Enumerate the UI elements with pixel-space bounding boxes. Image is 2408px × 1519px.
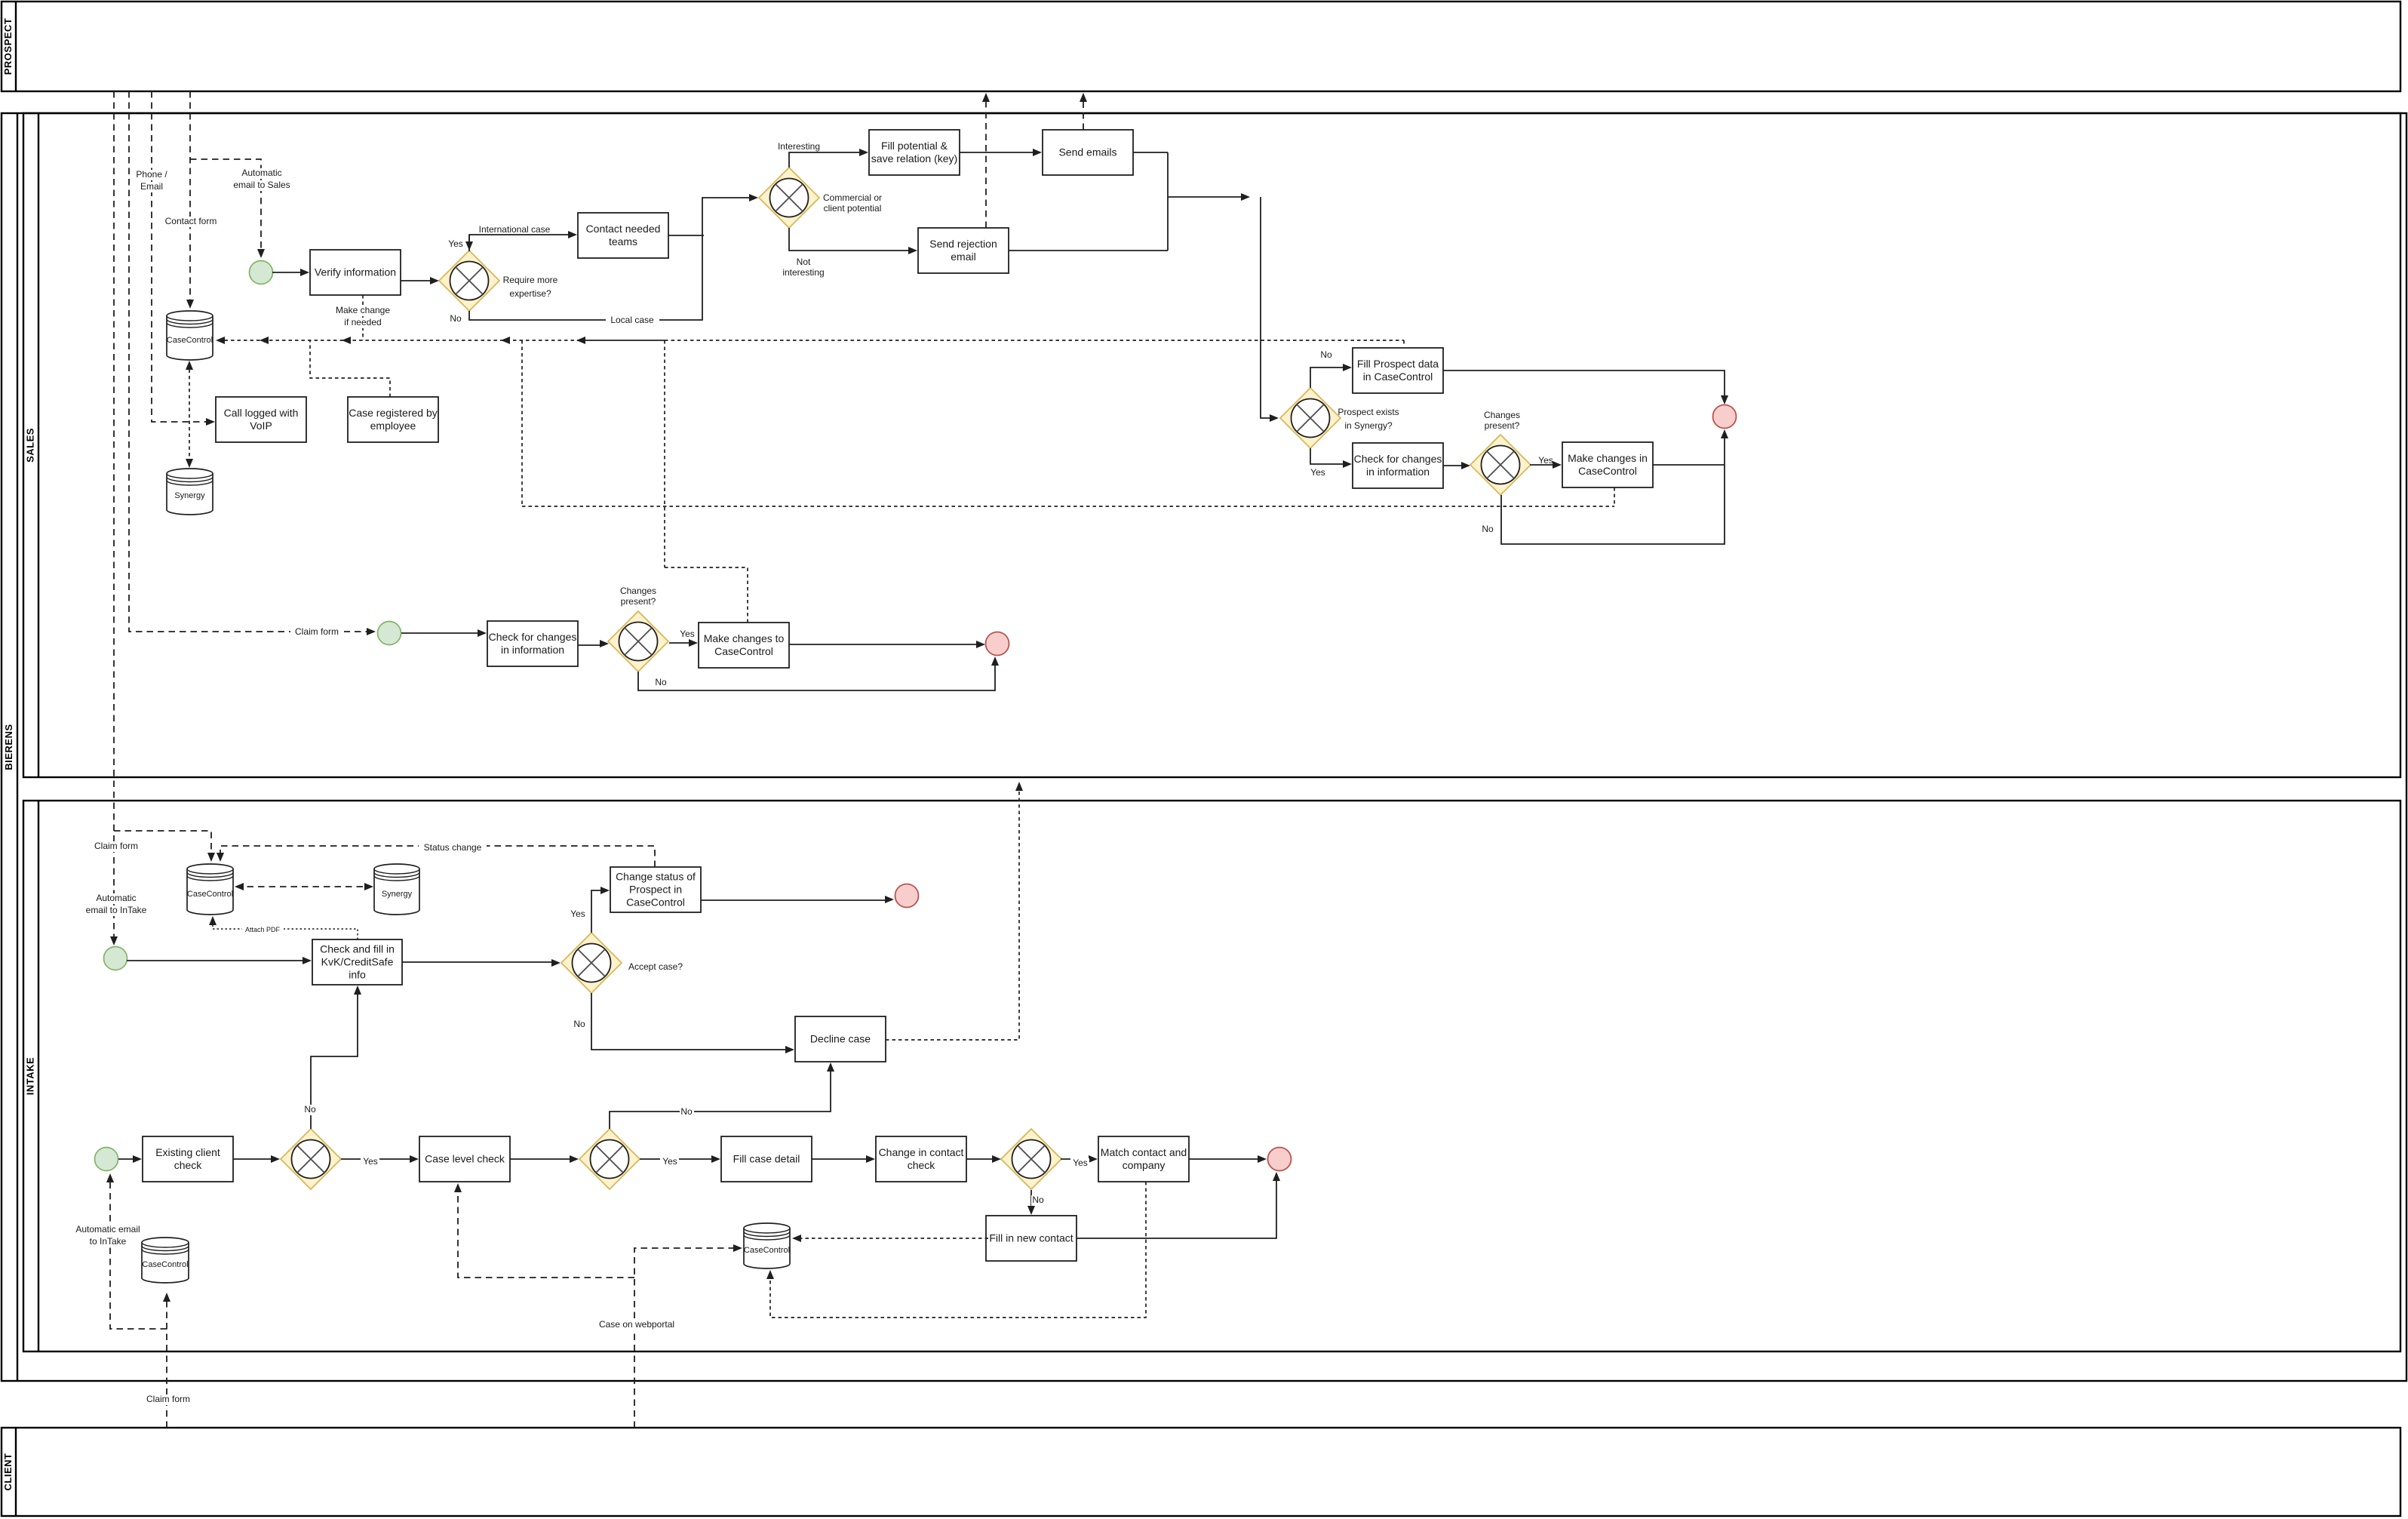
flow Fill case detail to Change in contact — [812, 1158, 871, 1160]
svg-text:if needed: if needed — [344, 317, 381, 327]
svg-text:expertise?: expertise? — [509, 288, 551, 299]
svg-text:Interesting: Interesting — [778, 141, 820, 152]
svg-text:Make changes in: Make changes in — [1568, 452, 1648, 464]
svg-text:save relation (key): save relation (key) — [871, 152, 957, 165]
message claim form client to start — [110, 1178, 167, 1329]
flow check to gateway (claim) — [578, 644, 604, 646]
datastore CaseControl (intake top) — [187, 864, 233, 915]
flow Fill Prospect data to end — [1443, 371, 1725, 401]
flow start to Existing client check — [118, 1158, 137, 1160]
label to InTake (bottom) — [84, 1236, 132, 1247]
label client potential — [824, 203, 882, 214]
svg-text:Changes: Changes — [1484, 410, 1520, 420]
message Send emails to prospect — [1083, 97, 1084, 130]
label Yes (accept) — [570, 909, 585, 919]
label if needed — [339, 317, 387, 328]
svg-text:Synergy: Synergy — [382, 890, 413, 899]
svg-text:Contact form: Contact form — [165, 216, 217, 226]
svg-text:CaseControl: CaseControl — [714, 645, 773, 657]
flow No to Decline case — [591, 993, 790, 1050]
svg-text:Yes: Yes — [448, 238, 463, 249]
end event (intake bottom) — [1268, 1148, 1292, 1171]
svg-text:info: info — [349, 969, 366, 981]
svg-text:No: No — [304, 1104, 316, 1115]
svg-text:client potential: client potential — [824, 203, 882, 214]
svg-text:Yes: Yes — [1310, 467, 1325, 478]
flow join to vertical — [1168, 196, 1245, 198]
svg-text:CaseControl: CaseControl — [167, 336, 213, 345]
svg-text:No: No — [680, 1106, 693, 1117]
flow Change in contact to gateway — [966, 1158, 997, 1160]
task Verify information — [310, 250, 401, 295]
flow Check to gateway Changes present — [1443, 465, 1466, 466]
svg-text:VoIP: VoIP — [250, 420, 272, 432]
svg-text:to InTake: to InTake — [90, 1236, 127, 1247]
svg-text:Change status of: Change status of — [616, 871, 696, 883]
arrowhead into CaseControl — [216, 337, 225, 344]
data line to CaseControl (dashed right) — [665, 340, 1404, 341]
flow Send emails out — [1133, 152, 1168, 251]
label email to InTake — [77, 905, 155, 916]
flow Not interesting — [789, 228, 913, 251]
svg-text:CaseControl: CaseControl — [744, 1246, 790, 1255]
data Match contact to CaseControl — [770, 1182, 1146, 1318]
flow Yes to Make changes to CC — [669, 642, 693, 644]
svg-text:No: No — [1320, 349, 1332, 360]
data Make changes in CC down — [1614, 487, 1615, 506]
label No (gw3) — [1320, 349, 1332, 360]
svg-text:email: email — [951, 251, 975, 263]
label Changes — [1484, 410, 1520, 420]
svg-text:email to Sales: email to Sales — [233, 180, 290, 190]
task Fill in new contact — [986, 1216, 1077, 1261]
svg-text:interesting: interesting — [782, 267, 824, 278]
svg-text:CaseControl: CaseControl — [626, 896, 685, 909]
svg-text:Automatic: Automatic — [96, 893, 136, 903]
lane SALES — [23, 113, 2400, 777]
label Email — [137, 181, 166, 192]
flow Case level to gateway — [510, 1158, 574, 1160]
start event: automatic email to InTake (bottom) — [95, 1148, 118, 1171]
svg-text:CaseControl: CaseControl — [142, 1260, 188, 1269]
svg-text:CLIENT: CLIENT — [2, 1453, 14, 1491]
flow Make changes to end — [789, 644, 981, 645]
task Fill Prospect data in CaseControl — [1353, 348, 1443, 393]
flow Existing to gateway — [233, 1158, 275, 1160]
svg-text:Yes: Yes — [662, 1156, 677, 1167]
svg-text:Fill in new contact: Fill in new contact — [989, 1232, 1073, 1244]
svg-text:Automatic email: Automatic email — [75, 1224, 140, 1235]
flow Yes to Fill case detail — [640, 1158, 716, 1160]
task Check for changes in information (sales) — [1353, 443, 1443, 488]
message arrow into gateway top — [468, 235, 470, 246]
message Decline case up to Sales — [886, 786, 1019, 1040]
task Check and fill in KvK/CreditSafe info — [312, 939, 402, 985]
flow Change status to end — [701, 899, 889, 901]
svg-text:teams: teams — [609, 235, 637, 248]
label Case on webportal — [593, 1319, 680, 1330]
label International case — [479, 224, 551, 235]
svg-text:CaseControl: CaseControl — [1578, 465, 1637, 477]
arrowhead on data line 1 — [260, 337, 269, 344]
flow No Local case — [469, 198, 754, 320]
label Claim form (client) — [142, 1394, 195, 1405]
task Make changes in CaseControl — [1562, 442, 1653, 487]
label Yes (existing) — [361, 1156, 379, 1167]
task Fill case detail — [721, 1136, 812, 1182]
svg-text:INTAKE: INTAKE — [24, 1057, 35, 1095]
arrowhead on data line 2 — [342, 337, 351, 344]
label Phone / — [132, 169, 170, 180]
end event (claim row) — [986, 632, 1009, 656]
svg-text:Call logged with: Call logged with — [224, 407, 299, 419]
flow No up to KvK box — [311, 990, 358, 1129]
task Check for changes in information (claim row) — [487, 621, 578, 666]
svg-text:Fill potential &: Fill potential & — [881, 140, 948, 152]
svg-text:Case registered by: Case registered by — [349, 407, 438, 419]
svg-text:No: No — [1032, 1195, 1044, 1205]
message case on webportal to CaseControl — [634, 1248, 738, 1428]
flow Make changes in CC out — [1653, 464, 1725, 466]
svg-text:Yes: Yes — [1538, 455, 1553, 466]
flow No up to Decline case — [610, 1066, 831, 1129]
pool PROSPECT — [2, 2, 2400, 91]
svg-text:in information: in information — [501, 644, 564, 656]
svg-text:Case level check: Case level check — [425, 1153, 505, 1165]
label Claim form (sales) — [290, 626, 344, 638]
task Match contact and company — [1098, 1136, 1189, 1182]
flow intake start to KvK — [127, 960, 307, 961]
svg-text:Not: Not — [797, 257, 811, 267]
message phone email to Call logged — [152, 91, 210, 422]
gateway Commercial or client potential — [759, 168, 819, 228]
svg-text:KvK/CreditSafe: KvK/CreditSafe — [321, 956, 394, 968]
svg-text:employee: employee — [370, 420, 416, 432]
svg-text:Send rejection: Send rejection — [929, 238, 997, 250]
svg-text:present?: present? — [621, 596, 656, 607]
flow No to Fill in new contact — [1030, 1190, 1032, 1210]
flow claim start to check — [401, 632, 482, 634]
label No (existing client) — [303, 1104, 318, 1115]
flow Fill potential to Send emails — [960, 152, 1037, 153]
svg-text:Claim form: Claim form — [295, 626, 339, 637]
svg-text:Changes: Changes — [620, 586, 656, 596]
label Attach PDF — [242, 926, 284, 935]
data CaseControl Synergy intake link — [236, 886, 372, 887]
svg-text:Yes: Yes — [1073, 1158, 1088, 1168]
label Interesting — [778, 141, 820, 152]
label email to Sales — [226, 180, 299, 191]
label No (case level) — [680, 1106, 694, 1118]
label Commercial or — [823, 192, 882, 203]
start event: automatic email to InTake — [104, 947, 127, 970]
svg-text:in CaseControl: in CaseControl — [1363, 371, 1433, 383]
svg-text:Fill Prospect data: Fill Prospect data — [1357, 358, 1439, 370]
datastore CaseControl (intake bottom) — [744, 1223, 790, 1268]
svg-text:No: No — [655, 677, 667, 687]
data line to CaseControl (dashed left) — [218, 340, 578, 341]
flow No loop to end — [1501, 433, 1725, 544]
label Automatic (intake) — [92, 893, 140, 904]
svg-text:CaseControl: CaseControl — [187, 890, 233, 899]
data drop into Fill Prospect data — [1403, 340, 1405, 346]
end event (intake accept) — [895, 884, 919, 908]
svg-text:Status change: Status change — [424, 842, 482, 853]
svg-text:in Synergy?: in Synergy? — [1344, 420, 1393, 431]
svg-text:Phone /: Phone / — [136, 169, 167, 180]
label No (contact gw) — [1031, 1195, 1046, 1206]
svg-text:check: check — [174, 1159, 203, 1171]
task Make changes to CaseControl — [699, 623, 789, 668]
label Changes (claim row) — [620, 586, 656, 596]
svg-text:email to InTake: email to InTake — [86, 905, 147, 915]
flow No to end (claim) — [638, 660, 995, 690]
task Case registered by employee — [348, 397, 438, 442]
svg-text:Prospect exists: Prospect exists — [1338, 407, 1399, 417]
datastore CaseControl (sales) — [167, 311, 213, 360]
task Decline case — [795, 1016, 886, 1062]
svg-text:Local case: Local case — [610, 315, 654, 325]
task Send rejection email — [918, 228, 1009, 273]
message claim form to sales claim start — [129, 91, 371, 632]
flow No to Fill Prospect data — [1310, 367, 1347, 388]
svg-text:Accept case?: Accept case? — [628, 961, 683, 972]
svg-text:Automatic: Automatic — [241, 168, 281, 178]
datastore CaseControl (intake left) — [142, 1238, 189, 1283]
svg-text:Check for changes: Check for changes — [1354, 453, 1442, 465]
svg-text:Prospect in: Prospect in — [629, 884, 682, 896]
gateway existing client check — [281, 1129, 341, 1189]
gateway Require more expertise? — [439, 251, 499, 311]
label Not — [797, 257, 811, 267]
data Make changes to CC up — [665, 567, 748, 623]
data stub x692 — [521, 340, 523, 506]
svg-text:No: No — [450, 313, 462, 324]
data make change if needed — [362, 295, 364, 340]
svg-text:Check and fill in: Check and fill in — [320, 943, 395, 955]
flow Match contact to end — [1189, 1158, 1262, 1160]
message contact form to CaseControl — [189, 91, 191, 304]
flow Yes to Change status — [591, 890, 605, 933]
svg-text:Yes: Yes — [363, 1156, 378, 1167]
svg-text:Contact needed: Contact needed — [586, 223, 661, 235]
flow Yes International case — [469, 235, 573, 251]
svg-text:Existing client: Existing client — [155, 1146, 220, 1158]
label Make change — [333, 305, 392, 316]
message claim form to CaseControl intake — [114, 831, 211, 857]
flow Fill in new contact to end — [1077, 1176, 1276, 1238]
label Prospect exists — [1338, 407, 1399, 417]
svg-text:Make changes to: Make changes to — [704, 632, 785, 644]
svg-text:Make change: Make change — [336, 305, 390, 315]
flow to gateway Prospect exists — [1261, 197, 1274, 418]
svg-text:Fill case detail: Fill case detail — [733, 1153, 800, 1165]
task Change status of Prospect in CaseControl — [610, 867, 701, 912]
flow Send rejection out — [1009, 250, 1168, 251]
svg-text:SALES: SALES — [24, 428, 35, 463]
data attach PDF — [213, 921, 358, 939]
label Claim form (intake) — [90, 841, 143, 852]
svg-text:Require more: Require more — [503, 275, 558, 285]
task Case level check — [419, 1136, 510, 1182]
svg-text:Commercial or: Commercial or — [823, 192, 882, 203]
data long line y671 — [522, 506, 1614, 507]
gateway Changes present? (sales right) — [1470, 435, 1531, 495]
label interesting — [782, 267, 824, 278]
label Status change — [419, 842, 487, 853]
flow Yes to Check for changes — [1310, 448, 1347, 464]
gateway change in contact — [1001, 1129, 1061, 1189]
task Existing client check — [143, 1136, 233, 1182]
flow Yes to Match contact — [1061, 1158, 1093, 1160]
label No (accept) — [573, 1019, 585, 1029]
data line solid segment — [578, 340, 665, 341]
start event: automatic email to Sales — [250, 261, 273, 284]
label present? — [1485, 420, 1520, 431]
svg-text:International case: International case — [479, 224, 551, 235]
flow Contact needed teams out — [668, 235, 704, 236]
label Yes (claim gw) — [680, 629, 695, 639]
svg-text:Case on webportal: Case on webportal — [599, 1319, 674, 1330]
data stub x881 — [664, 340, 665, 567]
data CaseControl Synergy link — [189, 363, 190, 466]
message case on webportal to Case level check — [458, 1188, 634, 1278]
svg-text:Claim form: Claim form — [146, 1394, 190, 1404]
label No (gw1) — [450, 313, 462, 324]
svg-text:BIERENS: BIERENS — [3, 724, 14, 770]
task Change in contact check — [876, 1136, 966, 1182]
flow Interesting — [789, 152, 864, 168]
datastore Synergy (intake) — [374, 864, 419, 915]
svg-text:present?: present? — [1485, 420, 1520, 431]
svg-text:Yes: Yes — [680, 629, 695, 639]
svg-text:Send emails: Send emails — [1058, 146, 1116, 158]
task Contact needed teams — [578, 213, 668, 258]
svg-text:No: No — [573, 1019, 585, 1029]
svg-text:Change in contact: Change in contact — [879, 1146, 964, 1158]
flow KvK to Accept case — [402, 961, 556, 963]
data status change — [220, 846, 655, 867]
gateway Changes present? (claim row) — [608, 611, 668, 672]
gateway Accept case? — [561, 933, 622, 993]
data Case registered to line — [310, 340, 390, 397]
flow Verify information to gateway — [401, 280, 435, 281]
flow Yes to Make changes in CaseControl — [1530, 464, 1557, 466]
end event (sales right) — [1713, 405, 1737, 429]
svg-text:Verify information: Verify information — [315, 266, 396, 278]
label Yes (gw3) — [1310, 467, 1325, 478]
svg-text:Attach PDF: Attach PDF — [245, 926, 281, 933]
gateway case level — [579, 1129, 640, 1189]
start event: claim form (sales) — [378, 622, 401, 645]
svg-text:Decline case: Decline case — [810, 1033, 871, 1045]
message claim form prospect to intake start — [113, 91, 115, 941]
label in Synergy? — [1344, 420, 1393, 431]
flow Yes to Case level check — [341, 1158, 414, 1160]
svg-text:check: check — [908, 1159, 936, 1171]
label present? (claim row) — [621, 596, 656, 607]
data Fill in new contact to CaseControl — [796, 1238, 988, 1239]
svg-text:Email: Email — [140, 181, 163, 192]
label Contact form — [159, 216, 223, 227]
svg-text:No: No — [1482, 524, 1494, 534]
arrowhead on data line 3 — [501, 337, 510, 344]
label Automatic (sales) — [238, 168, 286, 179]
svg-text:company: company — [1123, 1159, 1166, 1171]
label Require more — [503, 275, 558, 285]
label expertise? — [509, 288, 551, 299]
task Fill potential and save relation — [869, 130, 960, 175]
label No (gw4) — [1482, 524, 1494, 534]
arrowhead on data line 4 — [576, 337, 585, 344]
message claim form client to CaseControl — [166, 1296, 167, 1428]
svg-text:Claim form: Claim form — [94, 841, 138, 851]
svg-text:Synergy: Synergy — [174, 491, 205, 500]
label Local case — [606, 315, 659, 326]
svg-text:Match contact and: Match contact and — [1101, 1146, 1187, 1158]
datastore Synergy (sales) — [167, 469, 213, 515]
svg-text:PROSPECT: PROSPECT — [2, 18, 14, 75]
label Yes (case level) — [660, 1156, 679, 1167]
task Send emails — [1043, 130, 1133, 175]
flow start to Verify information — [272, 272, 305, 273]
svg-text:Check for changes: Check for changes — [489, 631, 577, 643]
label Yes (gw4) — [1538, 455, 1553, 466]
svg-text:Yes: Yes — [570, 909, 585, 919]
lane INTAKE — [23, 801, 2400, 1351]
pool CLIENT — [2, 1428, 2400, 1516]
message Send rejection to prospect — [985, 97, 987, 228]
task Call logged with VoIP — [216, 397, 306, 442]
label Automatic email (bottom) — [69, 1224, 146, 1235]
message automatic email to Sales start — [190, 159, 261, 254]
label Yes (contact gw) — [1070, 1158, 1089, 1169]
svg-text:in information: in information — [1366, 466, 1430, 478]
label Yes (gw1) — [448, 238, 463, 249]
gateway Prospect exists in Synergy? — [1280, 388, 1341, 448]
label Accept case? — [628, 961, 683, 972]
label No (claim gw) — [655, 677, 667, 687]
